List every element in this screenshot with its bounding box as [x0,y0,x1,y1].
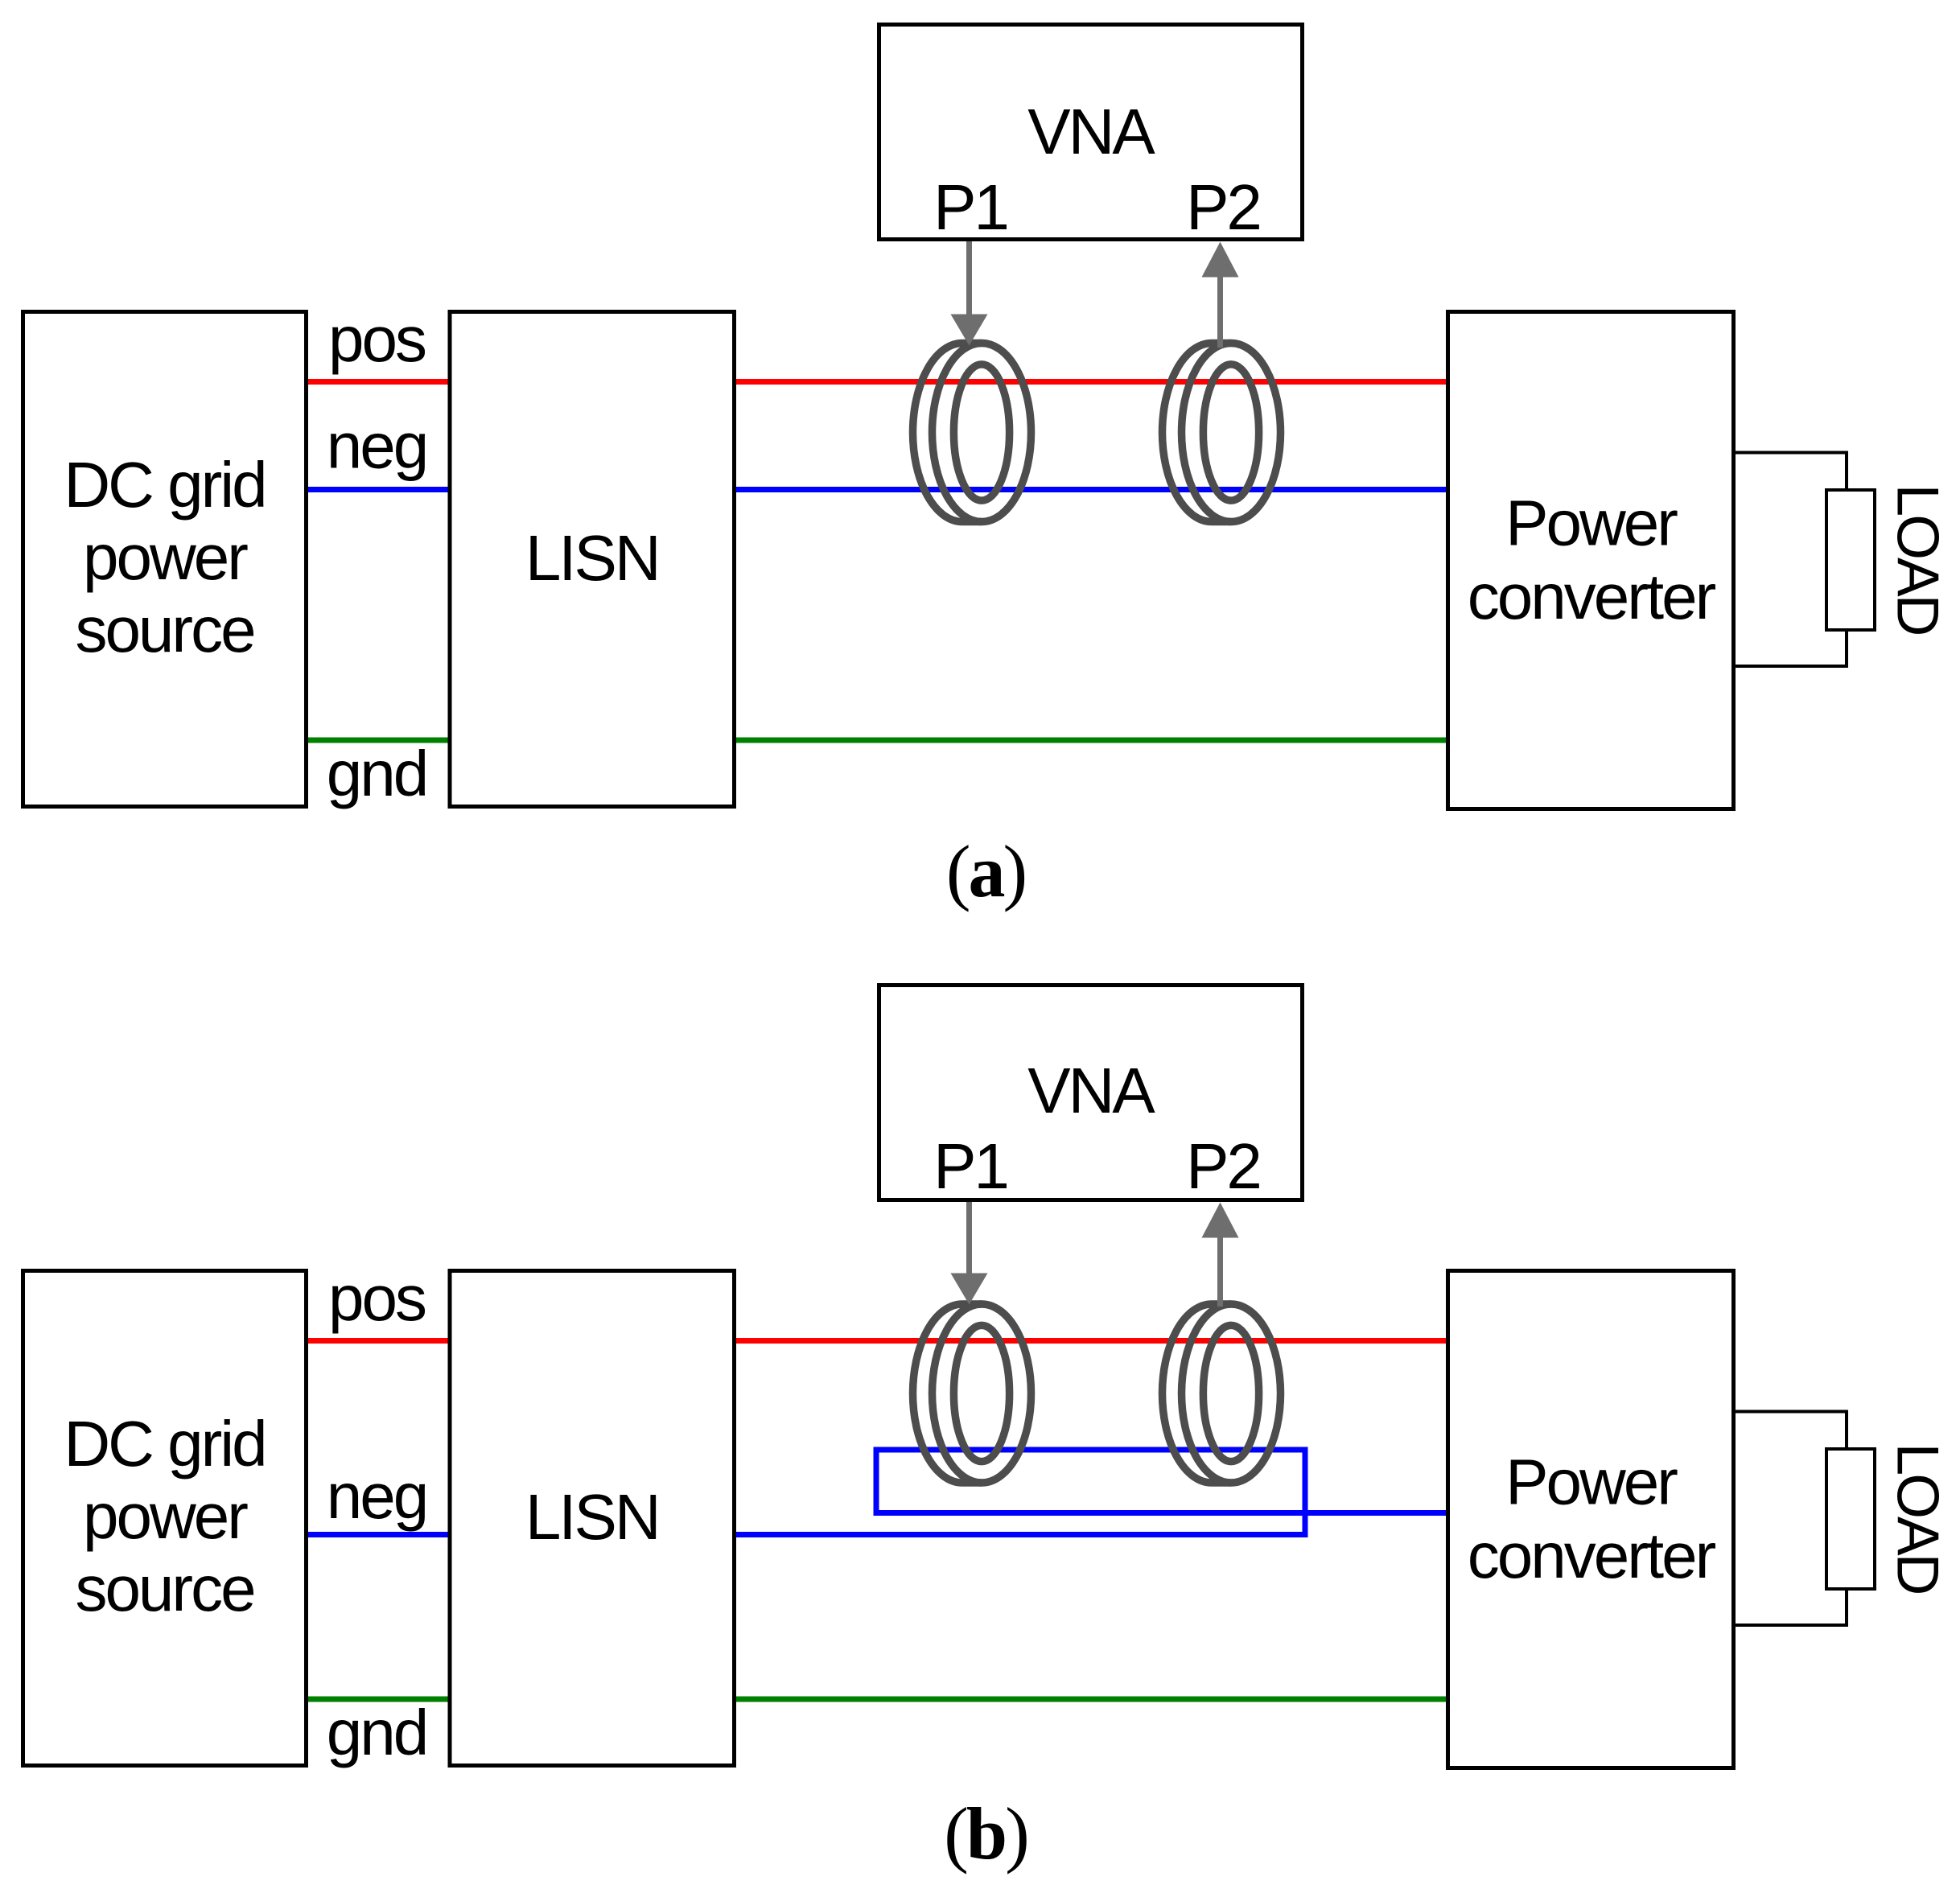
svg-text:converter: converter [1468,1520,1716,1591]
arrow probe to P2 (a) [1202,242,1239,348]
svg-text:neg: neg [327,1460,426,1532]
svg-text:source: source [75,594,253,665]
svg-text:(b): (b) [944,1792,1027,1875]
svg-text:P1: P1 [933,171,1007,243]
svg-text:VNA: VNA [1027,96,1155,167]
svg-text:pos: pos [328,1262,426,1334]
svg-text:converter: converter [1468,561,1716,632]
resistor LOAD (a) [1826,490,1875,630]
wire neg (b) source to LISN [308,1532,448,1537]
svg-text:VNA: VNA [1027,1055,1155,1126]
svg-text:gnd: gnd [327,1697,426,1768]
svg-text:pos: pos [328,303,426,375]
resistor LOAD (b) [1826,1449,1875,1589]
wire neg loop left vertical (b) [874,1447,879,1517]
wire gnd (a) green [308,738,1446,743]
svg-text:P2: P2 [1186,1130,1260,1202]
svg-text:(a): (a) [946,830,1025,912]
wire neg (a) blue [308,487,1446,492]
wire neg loop top through probes (b) [874,1447,1308,1453]
svg-text:LISN: LISN [525,1481,659,1553]
DC grid power source box (a) [23,312,307,807]
VNA box (b) [879,986,1303,1200]
wire load bottom (b) [1735,1591,1847,1625]
LISN box (b) [450,1271,735,1766]
VNA box (a) [879,25,1303,240]
arrow P1 to probe (a) [951,241,988,346]
wire gnd (b) green [308,1697,1446,1702]
svg-text:gnd: gnd [327,738,426,809]
svg-text:P1: P1 [933,1130,1007,1202]
svg-text:P2: P2 [1186,171,1260,243]
svg-text:Power: Power [1505,488,1678,559]
wire load bottom (a) [1735,632,1847,666]
wire load top (a) [1735,453,1847,489]
wire load top (b) [1735,1412,1847,1448]
Power converter box (b) [1448,1271,1734,1768]
svg-text:DC grid: DC grid [64,449,265,521]
arrow probe to P2 (b) [1202,1203,1239,1307]
svg-text:power: power [83,1480,248,1552]
LISN box (a) [450,312,735,807]
svg-text:LOAD: LOAD [1885,1443,1950,1594]
current probe P1 (b) [913,1304,1031,1483]
wire pos (a) red [308,379,1446,385]
wire pos (b) red [308,1338,1446,1344]
svg-text:source: source [75,1553,253,1624]
svg-text:DC grid: DC grid [64,1408,265,1480]
current probe P1 (a) [913,344,1031,522]
arrow P1 to probe (b) [951,1202,988,1305]
svg-text:LOAD: LOAD [1885,484,1950,635]
Power converter box (a) [1448,312,1734,809]
DC grid power source box (b) [23,1271,307,1766]
current probe P2 (b) [1163,1304,1281,1483]
svg-text:Power: Power [1505,1447,1678,1518]
svg-text:power: power [83,521,248,593]
wire neg loop right vertical (b) [1303,1447,1308,1538]
svg-text:LISN: LISN [525,522,659,594]
current probe P2 (a) [1163,344,1281,522]
wire neg loop to converter (b) [874,1510,1447,1516]
svg-text:neg: neg [327,410,426,482]
wire neg (b) LISN to loop [736,1532,1308,1537]
